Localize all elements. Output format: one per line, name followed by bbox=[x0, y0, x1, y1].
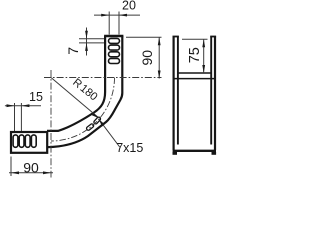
outer right wall bbox=[214, 37, 216, 151]
foot right bbox=[212, 152, 217, 155]
slots in vertical leg (4 horizontal stadiums) bbox=[109, 38, 120, 63]
plan view: 90 degree bend bbox=[11, 36, 123, 153]
dim line right 90 bbox=[158, 37, 160, 78]
arrow bottom of right 90 bbox=[158, 71, 161, 79]
svg-text:7: 7 bbox=[65, 47, 81, 55]
base bottom bbox=[173, 150, 216, 152]
svg-text:75: 75 bbox=[187, 47, 203, 63]
arrow top of right 90 bbox=[158, 37, 161, 45]
inner left wall bbox=[177, 37, 179, 145]
lower rail line full width bbox=[173, 78, 216, 80]
wall cap right bbox=[210, 36, 216, 38]
slot H1 bbox=[13, 135, 18, 147]
dimension: 75 (side view) bbox=[182, 39, 208, 73]
outer left wall bbox=[173, 37, 175, 151]
arrow right of bottom 90 bbox=[43, 171, 51, 174]
dimension: 15 (top left) bbox=[5, 103, 41, 131]
outer edge of bend bbox=[47, 36, 122, 147]
svg-text:15: 15 bbox=[29, 90, 43, 104]
dim line 20 bbox=[94, 14, 140, 16]
leader 7x15 bbox=[99, 120, 120, 148]
svg-text:R180: R180 bbox=[70, 77, 99, 104]
slot H2 bbox=[19, 135, 24, 147]
dimension: 7 (left of vertical leg) bbox=[79, 28, 104, 56]
slot H4 bbox=[31, 135, 36, 147]
inner right wall bbox=[210, 37, 212, 145]
dim line 7 bbox=[86, 28, 88, 56]
dimension: 90 (bottom) bbox=[9, 157, 53, 177]
arrow top of 7 bbox=[85, 31, 88, 39]
arrow left of bottom 90 bbox=[11, 171, 19, 174]
slot V4 bbox=[109, 59, 120, 64]
ext line top of 75 bbox=[182, 38, 208, 40]
ext line left of 15 bbox=[14, 103, 16, 131]
floor line bbox=[178, 72, 211, 74]
wall cap left bbox=[173, 36, 179, 38]
svg-text:90: 90 bbox=[139, 50, 155, 66]
bend slots 7x15 (two rotated stadiums on centre arc) bbox=[86, 116, 101, 131]
inner edge of bend bbox=[47, 36, 105, 131]
end flange rectangle of horizontal leg bbox=[11, 132, 47, 153]
radius leader R 180 bbox=[51, 78, 99, 118]
dim line 75 bbox=[203, 39, 205, 73]
arrow left of 15 bbox=[7, 104, 15, 107]
slot H3 bbox=[25, 135, 30, 147]
arrow of 7x15 leader bbox=[99, 119, 105, 126]
bend slot B bbox=[93, 116, 101, 124]
ext line top of right 90 bbox=[126, 36, 162, 38]
ext line left of 20 bbox=[108, 12, 110, 35]
centreline arc R180 bbox=[51, 78, 115, 142]
arrow left of 20 bbox=[101, 14, 109, 17]
leader line 7x15 bbox=[99, 120, 120, 148]
top end edge of vertical leg bbox=[104, 35, 123, 37]
ext line top of 7 bbox=[79, 38, 104, 40]
slot V2 bbox=[109, 45, 120, 50]
svg-text:20: 20 bbox=[122, 0, 136, 13]
arrow right of 20 bbox=[119, 14, 127, 17]
slot V3 bbox=[109, 52, 120, 57]
ext line right of 15 bbox=[20, 103, 22, 131]
side view (right): tray profile bbox=[173, 37, 217, 155]
dimension: 90 (right of vertical leg) bbox=[126, 37, 162, 78]
svg-text:90: 90 bbox=[23, 159, 39, 175]
ext line right of 20 bbox=[118, 12, 120, 35]
slots in left flange (4 vertical stadiums) bbox=[13, 135, 36, 147]
ext line left of bottom 90 bbox=[10, 157, 12, 177]
arrow bottom of 7 bbox=[85, 43, 88, 51]
bend slot A bbox=[86, 123, 95, 131]
centreline horizontal at y=77.5 bbox=[44, 77, 162, 79]
centre lines (dash-dot) bbox=[44, 70, 162, 178]
arrow top of 75 bbox=[202, 39, 205, 47]
dimension: 20 (top) bbox=[94, 12, 140, 35]
centreline vertical at x=51 bbox=[50, 70, 52, 178]
arrow bottom of 75 bbox=[202, 65, 205, 73]
slot V1 bbox=[109, 38, 120, 43]
leader line R180 bbox=[51, 78, 99, 118]
ext line bottom of 7 bbox=[79, 42, 104, 44]
dim line 15 bbox=[5, 105, 41, 107]
arrow of R180 leader bbox=[92, 113, 100, 118]
arrow right of 15 bbox=[21, 104, 29, 107]
svg-text:7x15: 7x15 bbox=[116, 141, 143, 155]
dim line bottom 90 bbox=[9, 172, 53, 174]
foot left bbox=[173, 152, 178, 155]
